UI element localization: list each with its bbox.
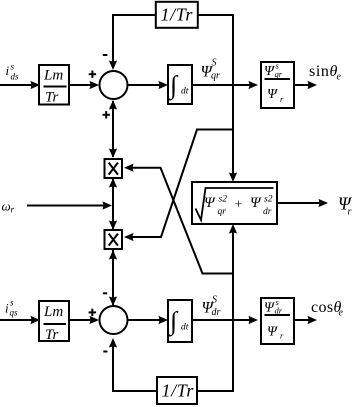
label sin(theta_e): [309, 63, 342, 83]
svg-text:ω: ω: [2, 199, 11, 214]
label psi_r (output): [338, 194, 352, 218]
svg-text:ds: ds: [11, 72, 20, 82]
sign + (top sum, left input): [89, 71, 96, 78]
wire: bottom feedback from node (233,320) down to 1/Tr (bottom) input: [197, 320, 233, 391]
wire: psi_dr feedback vertical into sqrt box (bottom input): [229, 224, 237, 320]
wire: omega_r to both X multipliers (vertical): [109, 178, 117, 230]
sign - (top sum, top input): [103, 54, 108, 56]
wire: psi_qr cross branch to bottom X multiplier: [124, 130, 233, 242]
wire: Lm/Tr to top summing junction: [69, 81, 99, 89]
wire: psi_qr feedback vertical into sqrt box (top input): [229, 85, 237, 182]
svg-text:Lm: Lm: [43, 304, 63, 320]
svg-text:s2: s2: [264, 195, 273, 205]
wire: top feedback from node (233,85) up to 1/Tr input: [198, 15, 233, 85]
svg-text:S: S: [212, 58, 217, 69]
sign + (bottom sum, left input): [89, 309, 96, 316]
wire: Lm/Tr to bottom summing junction: [69, 316, 99, 324]
wire: i_qs input to Lm/Tr box: [0, 316, 40, 324]
svg-text:qr: qr: [218, 207, 227, 217]
block sqrt(psi_qr^s2 + psi_dr^s2): [192, 182, 277, 224]
svg-text:+: +: [235, 198, 243, 213]
sign - (bottom sum, bottom input): [103, 351, 107, 353]
label cos(theta_e): [311, 299, 344, 319]
svg-text:r: r: [280, 94, 284, 104]
wire: top X box output up to summing junction (+ input), double arrow: [109, 100, 117, 158]
svg-text:Tr: Tr: [45, 89, 59, 105]
wire: bottom summing junction to integrator: [128, 316, 169, 324]
label omega_r: [2, 199, 15, 215]
svg-text:Ψ: Ψ: [264, 301, 275, 316]
wire: psi_dr cross branch to top X multiplier: [124, 164, 233, 274]
label psi_qr^S (top channel): [201, 58, 221, 82]
label psi_dr^S (bottom channel): [202, 294, 221, 318]
svg-text:cosθ: cosθ: [311, 299, 342, 316]
svg-text:Tr: Tr: [45, 327, 59, 343]
svg-text:dt: dt: [181, 87, 189, 97]
wire: omega_r input: [27, 201, 112, 209]
svg-text:1/Tr: 1/Tr: [161, 5, 194, 25]
wire: psi_r output arrow: [277, 199, 328, 207]
block Lm/Tr (top): [39, 65, 69, 105]
svg-text:dt: dt: [181, 323, 189, 333]
svg-text:Lm: Lm: [43, 68, 63, 84]
svg-text:e: e: [337, 72, 342, 83]
svg-text:dr: dr: [275, 306, 283, 316]
wire: cos output arrow: [294, 316, 317, 324]
svg-text:Ψ: Ψ: [267, 87, 278, 102]
svg-text:s2: s2: [219, 195, 228, 205]
wire: top summing junction to integrator: [128, 81, 169, 89]
wire: 1/Tr (bottom) output to bottom summing junction (- input): [109, 338, 157, 391]
svg-text:S: S: [212, 294, 217, 305]
svg-text:Ψ: Ψ: [250, 195, 262, 211]
block psi_qr^s / psi_r (top): [261, 61, 294, 109]
block Lm/Tr (bottom): [39, 301, 69, 343]
block psi_dr^s / psi_r (bottom): [261, 297, 294, 344]
svg-text:1/Tr: 1/Tr: [162, 381, 195, 401]
block 1/Tr (bottom): [157, 377, 197, 404]
label i_ds^s: [6, 62, 20, 82]
block integrator (top): [168, 65, 192, 104]
svg-text:Ψ: Ψ: [264, 64, 275, 79]
block multiplier X (top): [105, 159, 123, 178]
svg-text:qr: qr: [275, 69, 283, 79]
wire: integrator output to psi_qr/psi_r box: [192, 81, 258, 89]
svg-text:dr: dr: [212, 307, 221, 318]
svg-text:e: e: [339, 308, 344, 319]
wire: bottom X box output down to bottom summing junction (- input), double arrow: [109, 250, 117, 306]
svg-text:Ψ: Ψ: [204, 195, 216, 211]
sign + (top sum, bottom input): [103, 111, 110, 118]
summing junction (bottom): [100, 306, 128, 334]
svg-text:r: r: [280, 331, 284, 341]
svg-text:∫: ∫: [168, 307, 179, 337]
svg-text:i: i: [5, 301, 9, 316]
svg-text:qr: qr: [211, 71, 220, 82]
sign - (bottom sum, top input): [103, 292, 107, 294]
svg-text:s: s: [11, 62, 15, 72]
svg-text:r: r: [11, 205, 15, 215]
block integrator (bottom): [168, 300, 192, 342]
wire: sin output arrow: [294, 81, 317, 89]
wire: 1/Tr (top) output to top summing junction (minus input): [109, 15, 156, 70]
summing junction (top): [100, 71, 128, 99]
svg-text:dr: dr: [263, 207, 272, 217]
block 1/Tr (top): [156, 2, 198, 28]
wire: integrator output to psi_dr/psi_r box: [192, 316, 258, 324]
svg-text:r: r: [348, 207, 352, 218]
block multiplier X (bottom): [105, 230, 123, 249]
svg-text:s: s: [10, 298, 14, 308]
svg-text:∫: ∫: [168, 71, 179, 101]
svg-text:qs: qs: [10, 308, 19, 318]
svg-text:sinθ: sinθ: [309, 63, 338, 80]
svg-text:i: i: [6, 63, 10, 78]
svg-text:Ψ: Ψ: [267, 325, 278, 340]
label i_qs^s: [5, 298, 18, 318]
wire: i_ds input to Lm/Tr box: [0, 81, 40, 89]
